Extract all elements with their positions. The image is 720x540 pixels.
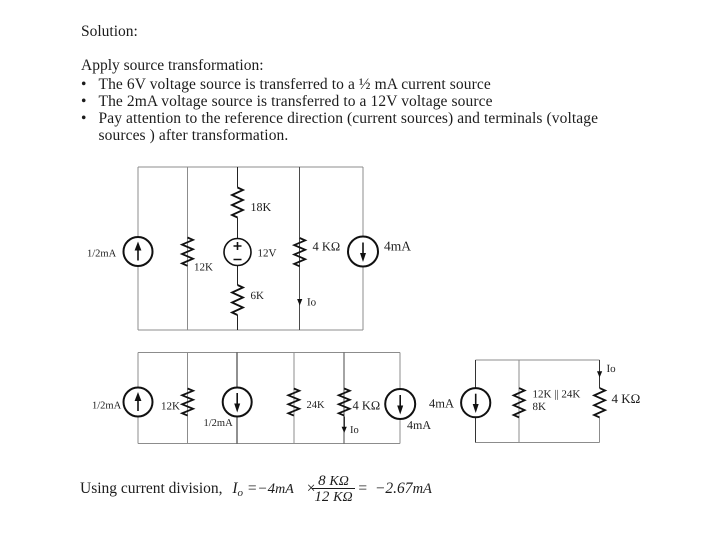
- resistor 18K: [232, 188, 243, 218]
- wire: outer rectangle circuit 1: [138, 167, 363, 330]
- resistor 4 Kohm circuit 3: [594, 388, 605, 417]
- svg-text:1/2mA: 1/2mA: [92, 401, 122, 412]
- svg-text:12V: 12V: [258, 248, 277, 260]
- current source 4mA (circuit 3): [461, 388, 490, 417]
- svg-text:Io: Io: [607, 363, 617, 375]
- resistor 12K circuit 1: [182, 238, 193, 266]
- svg-text:4 KΩ: 4 KΩ: [612, 391, 641, 406]
- svg-text:12K || 24K: 12K || 24K: [533, 389, 581, 401]
- formula: Using current division, Io = -4mA x 8K/12K = -2.67mA: [80, 481, 432, 498]
- resistor 12K circuit 2: [182, 389, 193, 416]
- wire: 4K branch circuit 2: [343, 353, 345, 444]
- wire: outer rectangle circuit 2: [138, 353, 400, 444]
- svg-text:4 KΩ: 4 KΩ: [313, 240, 341, 254]
- svg-text:4mA: 4mA: [407, 418, 431, 432]
- current source I1 1/2mA: [124, 237, 153, 266]
- svg-text:1/2mA: 1/2mA: [204, 418, 234, 429]
- wire: middle branch circuit 1: [237, 167, 239, 330]
- formula fraction 8K over 12K: [312, 475, 355, 505]
- current source 4mA (circuit 2 right): [385, 389, 415, 419]
- wire: right edge circuit 3 upper: [599, 360, 601, 388]
- resistor 24K circuit 2: [288, 389, 299, 416]
- wire: 12K branch circuit 1: [187, 167, 189, 330]
- wire: 24K branch circuit 2: [293, 353, 295, 444]
- svg-text:12K: 12K: [194, 262, 213, 274]
- wire: right edge circuit 3 lower: [599, 418, 601, 443]
- wire: 4K ohm branch circuit 1: [299, 167, 301, 330]
- arrow Io circuit 3: [597, 371, 602, 377]
- wire: 12K branch circuit 2: [187, 353, 189, 444]
- resistor 12K||24K 8K circuit 3: [514, 388, 525, 417]
- svg-text:4mA: 4mA: [384, 239, 411, 254]
- heading "Apply source transformation:": [81, 58, 264, 74]
- svg-text:4 KΩ: 4 KΩ: [353, 399, 381, 413]
- bullet list: [81, 77, 598, 145]
- arrow Io circuit 2: [342, 417, 347, 434]
- resistor 6K: [232, 285, 243, 315]
- svg-text:Io: Io: [350, 425, 359, 436]
- svg-text:1/2mA: 1/2mA: [87, 249, 117, 260]
- wire: middle branch circuit 3: [518, 360, 520, 443]
- wire: outer rectangle circuit 3: [476, 360, 600, 443]
- title text "Solution:": [81, 24, 138, 40]
- svg-text:18K: 18K: [251, 200, 272, 214]
- svg-text:24K: 24K: [307, 400, 326, 411]
- current source 1/2mA up (circuit 2): [124, 388, 153, 417]
- arrow Io circuit 1: [297, 299, 302, 306]
- current source 4mA circuit 1: [348, 237, 378, 267]
- svg-text:Io: Io: [307, 297, 317, 309]
- svg-text:8K: 8K: [533, 401, 547, 413]
- svg-text:4mA: 4mA: [429, 397, 454, 411]
- resistor 4 Kohm circuit 1: [294, 238, 305, 266]
- wire: middle source branch circuit 2: [236, 353, 238, 444]
- svg-text:12K: 12K: [161, 401, 180, 413]
- wire: left edge circuit 3: [475, 360, 477, 443]
- voltage source 12V: [224, 239, 251, 266]
- resistor 4 Kohm circuit 2: [339, 389, 350, 416]
- svg-text:6K: 6K: [251, 290, 265, 302]
- current source 1/2mA down (circuit 2): [223, 388, 252, 417]
